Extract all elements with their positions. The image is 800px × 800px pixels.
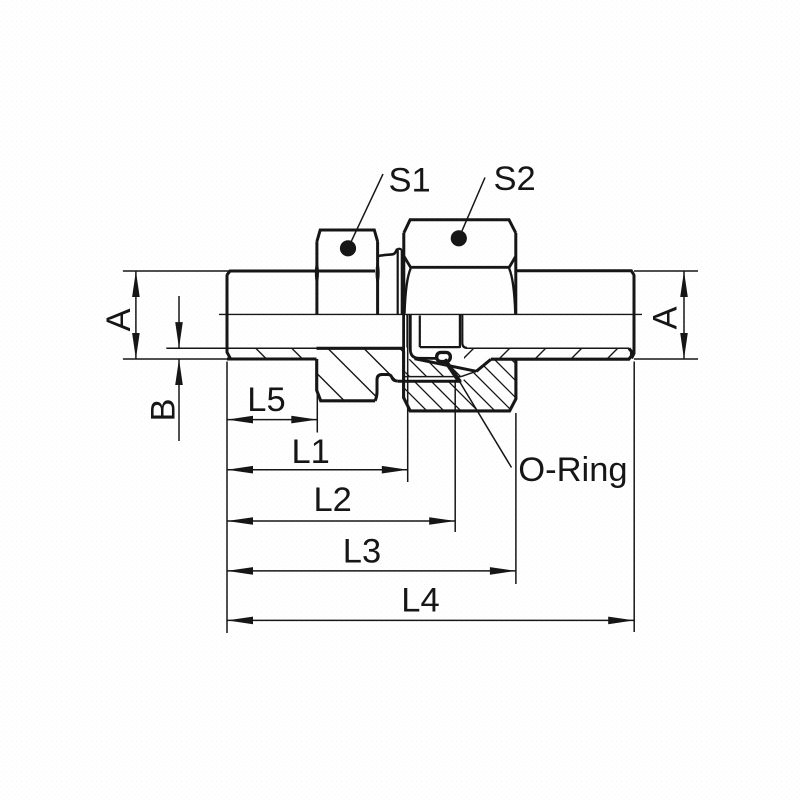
leader dot S2: [451, 230, 467, 246]
centerline axis: [219, 313, 642, 315]
O-ring leader thin segment: [460, 382, 512, 468]
body left end edge: [227, 275, 231, 359]
centre block: left edge, chamfer, bottom, right chamfer, right edge: [404, 352, 516, 411]
hatching fwd-slanted: nut groove bit: [654, 330, 780, 420]
dimension A right arrows: [680, 271, 688, 297]
extension lines right (A): [634, 271, 698, 359]
hatching back-slanted: centre section: [238, 330, 472, 420]
hex S1: [317, 230, 378, 314]
wedge edge to cone: [461, 371, 476, 376]
svg-text:L1: L1: [292, 433, 330, 471]
neck between hexes: [379, 249, 397, 256]
contact line lower (thick): [398, 380, 462, 383]
hex S2 outline: [404, 220, 516, 315]
dimension A left line: [135, 271, 137, 359]
dimension L2: [227, 520, 455, 522]
extension verticals for length dims: [227, 314, 634, 633]
hex S2 flare curves: [405, 268, 516, 313]
dimension L3: [227, 570, 516, 572]
body right end edge: [632, 275, 634, 359]
hatching fwd-slanted: right strip: [402, 330, 800, 420]
nut wall outer line: [402, 314, 405, 351]
thread lines right of groove: [460, 314, 467, 348]
svg-text:L5: L5: [247, 381, 285, 419]
svg-text:A: A: [647, 306, 685, 329]
nut bore corner: [420, 316, 460, 348]
hatching back-slanted dense: lower centre block: [346, 330, 572, 420]
svg-text:S1: S1: [389, 162, 431, 200]
hex S1 right corner lens: [376, 262, 379, 284]
svg-text:A: A: [100, 308, 138, 331]
svg-text:O-Ring: O-Ring: [518, 451, 627, 489]
hex S2 bottom chamfers and waist: [404, 257, 515, 268]
dimension A right line: [683, 271, 685, 359]
right strip top line: [467, 347, 630, 349]
hatching back-slanted: left strip: [166, 330, 400, 420]
leader line S1: [348, 174, 383, 248]
left section step: vertical, chamfer, bottom: [317, 359, 376, 401]
svg-text:L4: L4: [401, 581, 439, 619]
svg-text:B: B: [145, 398, 183, 421]
hatching back-slanted dense: cone band: [346, 330, 538, 420]
svg-text:L3: L3: [343, 533, 381, 571]
hex S1 left corner lens: [315, 262, 318, 284]
nut groove wall with fillet: [410, 314, 436, 358]
centre block: chamfer to top right: [476, 359, 491, 371]
svg-text:L2: L2: [314, 481, 352, 519]
body top edge: [227, 271, 634, 275]
svg-text:S2: S2: [494, 160, 536, 198]
sealing nose bump profile: [375, 375, 398, 401]
O-ring leader thick segment: [445, 360, 460, 382]
contact line upper (thin): [405, 376, 461, 378]
leader line S2: [459, 178, 485, 239]
leader dot S1: [340, 240, 356, 256]
O-ring cross section: [437, 352, 451, 361]
cone seat slant line: [415, 359, 477, 372]
bore line thick segment: [317, 347, 403, 350]
extension lines left (A top, bore, bottom): [123, 271, 317, 359]
washer edges: [397, 249, 402, 315]
dimension B arrows: [175, 322, 183, 348]
dimension L1: [227, 469, 408, 471]
centre block top / right strip bottom: [491, 348, 632, 359]
body bottom edge left segment: [227, 357, 317, 360]
dimension L4: [227, 619, 634, 621]
dimension B line upper/lower: [178, 296, 180, 441]
dimension L5: [227, 419, 317, 421]
nut wall inner line: [406, 314, 408, 347]
dimension A left arrows: [132, 271, 140, 297]
